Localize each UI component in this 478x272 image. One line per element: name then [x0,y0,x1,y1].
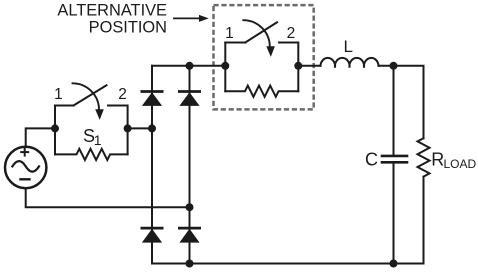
switch S1 arc arrow [73,83,100,110]
svg-text:R: R [431,150,444,170]
node: alt switch left [221,62,229,70]
svg-text:LOAD: LOAD [444,157,477,171]
node: col2 bottom [186,260,194,268]
alternative switch arc arrow [243,20,269,47]
capacitor C plates [382,156,407,162]
arrow from label to alternative-position box [174,15,209,22]
label RLOAD [431,150,476,171]
svg-text:ALTERNATIVE: ALTERNATIVE [57,2,167,20]
switch S1 blade [74,85,107,105]
svg-text:2: 2 [287,25,296,42]
label S1 [83,126,102,148]
resistor of S1 (parallel) [55,149,128,160]
wire top bus [152,65,225,67]
wire bridge column 2 (right) [189,66,191,264]
node: bridge col2 top [186,62,194,70]
svg-text:1: 1 [225,25,234,42]
AC source plus sign [21,149,28,156]
AC source sine wave [12,161,39,172]
node: S1 right [124,124,132,132]
svg-text:2: 2 [118,86,127,103]
switch S1 right rail and post [108,106,128,155]
switch S1 left post [54,106,56,155]
node: capacitor bottom [390,260,398,268]
alternative switch left post [224,43,226,92]
dashed outline box (alternative position) [214,5,314,109]
alternative switch left rail [225,42,245,44]
wire bottom bus [152,263,424,265]
resistor RLOAD [418,138,430,176]
wire S1 right node to bridge [128,127,152,129]
switch S1 left rail [55,105,74,107]
diode D1 (top left) [142,92,162,106]
AC source V1 [5,147,46,188]
node: alt switch right [294,62,302,70]
svg-text:L: L [344,37,353,56]
label ALTERNATIVE POSITION [57,2,167,37]
inductor L [321,58,379,68]
AC source minus sign [21,178,30,180]
alternative switch blade [245,22,277,42]
diode D3 (bottom left) [142,228,162,243]
node: bridge col1 mid [148,124,156,132]
capacitor C branch top wire [393,66,395,155]
wire AC top to S1 left node [26,128,55,146]
svg-text:1: 1 [94,132,102,148]
wire bridge column 1 (left) [151,66,153,264]
diode D2 (top right) [179,92,199,106]
wire inductor to top-right corner [379,66,424,138]
alternative switch right rail and post [279,43,298,92]
capacitor C bottom wire [393,164,395,264]
node: S1 left [51,124,59,132]
svg-text:POSITION: POSITION [89,19,167,37]
wire alt right node to inductor [298,65,320,67]
wire AC bottom to bridge mid node [26,188,190,207]
diode D4 (bottom right) [179,228,199,243]
resistor of alternative switch [225,86,298,97]
node: inductor output [390,62,398,70]
svg-text:1: 1 [54,86,63,103]
svg-text:C: C [365,149,378,169]
node: AC return at col2 [186,203,194,211]
